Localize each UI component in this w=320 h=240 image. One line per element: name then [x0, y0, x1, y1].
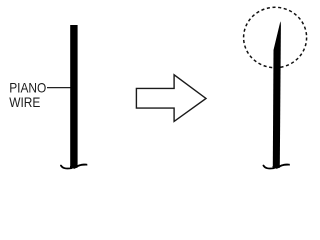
sharpened wire (right bar) [273, 21, 281, 167]
svg-text:WIRE: WIRE [9, 94, 41, 110]
wire base foot (right) [263, 164, 289, 169]
dashed circle [244, 7, 307, 67]
label PIANO WIRE [9, 80, 46, 110]
wire base foot (left) [61, 164, 87, 169]
arrow [136, 75, 206, 122]
piano wire (left bar) [70, 25, 77, 167]
leader line [47, 87, 71, 89]
